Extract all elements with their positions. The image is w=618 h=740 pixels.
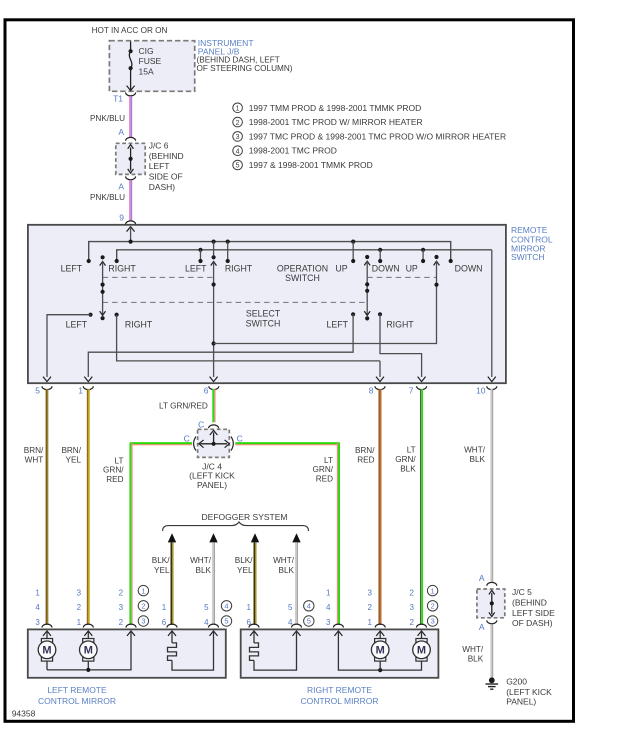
svg-text:BLK/: BLK/ [235, 556, 253, 565]
svg-text:6: 6 [204, 386, 209, 396]
svg-text:OPERATION: OPERATION [277, 264, 328, 274]
svg-text:OF STEERING COLUMN): OF STEERING COLUMN) [197, 64, 293, 73]
wire fuse to J/B exit [130, 68, 132, 89]
svg-text:5: 5 [307, 617, 311, 626]
switch pole (op sw sec3 / select sw sec2) [365, 255, 369, 259]
svg-text:6: 6 [247, 618, 252, 627]
svg-text:5: 5 [236, 163, 240, 170]
junction connector J/C 6 [116, 143, 145, 174]
svg-text:M: M [42, 645, 51, 657]
svg-text:1: 1 [368, 618, 373, 627]
svg-text:A: A [118, 127, 124, 137]
svg-text:LT: LT [115, 456, 124, 465]
instrument panel J/B box [109, 41, 194, 92]
svg-text:2: 2 [77, 603, 82, 612]
wire LT GRN/RED entry to motor commons [338, 631, 421, 670]
svg-text:1: 1 [326, 588, 331, 597]
svg-text:RED: RED [357, 456, 374, 465]
heater element (right mirror) [253, 631, 255, 643]
entry arrow [293, 631, 301, 636]
wire drop to RIGHT contact (op sw sec1) [115, 259, 119, 263]
fuse CIG FUSE 15A [130, 42, 132, 52]
svg-text:10: 10 [476, 386, 486, 396]
svg-text:3: 3 [141, 617, 145, 626]
svg-text:1: 1 [162, 603, 167, 612]
wire drop to LEFT contact (op sw sec1) [87, 259, 91, 263]
svg-text:BLK: BLK [400, 465, 416, 474]
svg-text:(BEHIND: (BEHIND [149, 151, 184, 161]
connector arc (left mirror entry) [167, 624, 177, 627]
wire LT GRN/BLK pin 7 to right mirror [420, 389, 422, 625]
svg-text:BRN/: BRN/ [24, 446, 44, 455]
svg-text:1998-2001 TMC PROD: 1998-2001 TMC PROD [249, 146, 337, 156]
svg-text:A: A [118, 182, 124, 192]
select sw sec1 LEFT contact to pin 5 [88, 313, 92, 317]
variant note 1 (right mirror) [427, 585, 437, 595]
mechanical linkage (select switch) [103, 301, 368, 303]
svg-text:LEFT REMOTE: LEFT REMOTE [47, 685, 107, 695]
wire drop to DOWN contact (op sw sec3) [379, 250, 381, 260]
junction connector J/C 4 [198, 429, 230, 457]
svg-text:C: C [184, 433, 190, 443]
svg-text:3: 3 [119, 603, 124, 612]
svg-text:CONTROL MIRROR: CONTROL MIRROR [38, 696, 116, 706]
wire BRN/RED pin 8 to right mirror [378, 389, 380, 625]
node pin 6 / pole D junction [212, 341, 216, 345]
connector arc (right mirror entry) [292, 624, 302, 627]
svg-text:BLK: BLK [468, 654, 484, 663]
svg-text:94358: 94358 [12, 708, 36, 718]
svg-text:J/C 6: J/C 6 [149, 141, 169, 151]
svg-text:3: 3 [410, 603, 415, 612]
ground G200 [489, 677, 495, 683]
right remote control mirror box [241, 629, 439, 677]
svg-text:PANEL): PANEL) [506, 697, 536, 707]
connector C arc at J/C 4 top [209, 425, 219, 428]
svg-text:1997 TMM PROD & 1998-2001 TMMK: 1997 TMM PROD & 1998-2001 TMMK PROD [249, 103, 422, 113]
select sw sec1 RIGHT contact wire [115, 313, 119, 317]
pin 6 [209, 386, 219, 389]
wire drop to UP contact (op sw sec3) [352, 242, 354, 260]
legend note 4 [233, 146, 243, 156]
svg-text:3: 3 [368, 588, 373, 597]
svg-text:4: 4 [224, 602, 228, 611]
svg-text:UP: UP [406, 264, 418, 274]
defogger feed arrow WHT/BLK [209, 533, 217, 542]
switch pole (op sw sec1 / select sw sec1) [101, 255, 105, 259]
wire WHT/BLK pin 10 to J/C 5 [490, 389, 492, 582]
connector arc (right mirror entry) [417, 624, 427, 627]
connector arc (left mirror entry) [126, 624, 136, 627]
svg-text:PANEL): PANEL) [197, 480, 227, 490]
brace defogger system [163, 522, 309, 531]
svg-text:RED: RED [106, 475, 123, 484]
svg-text:1: 1 [78, 386, 83, 396]
entry arrow [250, 631, 258, 636]
svg-text:(LEFT KICK: (LEFT KICK [506, 687, 552, 697]
wire BRN/YEL pin 1 to left mirror [87, 389, 89, 625]
node bus1 x213.6 [212, 240, 216, 244]
svg-text:HOT IN ACC OR ON: HOT IN ACC OR ON [92, 26, 168, 35]
svg-text:2: 2 [431, 602, 435, 611]
svg-text:M: M [376, 645, 385, 657]
svg-text:1998-2001 TMC PROD W/ MIRROR H: 1998-2001 TMC PROD W/ MIRROR HEATER [249, 117, 423, 127]
svg-text:CIG: CIG [139, 46, 154, 56]
svg-text:RIGHT REMOTE: RIGHT REMOTE [307, 685, 372, 695]
svg-text:T1: T1 [113, 93, 123, 103]
connector C paren left [194, 437, 196, 451]
entry arrow [168, 631, 176, 636]
wire LT GRN/RED left branch [130, 442, 192, 444]
svg-text:2: 2 [236, 120, 240, 127]
variant note 4 (right mirror) [304, 601, 314, 611]
legend note 5 [233, 160, 243, 170]
svg-text:1: 1 [236, 106, 240, 113]
svg-text:1: 1 [35, 588, 40, 597]
svg-text:FUSE: FUSE [139, 56, 162, 66]
wire to pin 8 exit [379, 361, 381, 377]
node bus2 x200.5 [198, 248, 202, 252]
pin A (J/C 6 bottom) [126, 176, 136, 179]
svg-text:5: 5 [224, 617, 228, 626]
svg-text:BLK/: BLK/ [152, 556, 170, 565]
connector pin 9 entry arc [126, 221, 136, 224]
svg-text:RIGHT: RIGHT [225, 264, 253, 274]
node bus2 x423.1 [421, 248, 425, 252]
svg-text:(BEHIND: (BEHIND [512, 598, 547, 608]
svg-text:C: C [198, 419, 204, 429]
wire entries to motors [46, 631, 48, 639]
svg-text:RIGHT: RIGHT [108, 264, 136, 274]
svg-text:2: 2 [119, 618, 124, 627]
entry arrow [418, 631, 426, 636]
variant note 3 (left mirror) [138, 616, 148, 626]
motor M3 (right mirror horizontal) [375, 639, 386, 643]
svg-text:2: 2 [368, 603, 373, 612]
pin 1 [83, 386, 93, 389]
svg-text:1997 TMC PROD & 1998-2001 TMC: 1997 TMC PROD & 1998-2001 TMC PROD W/O M… [249, 131, 506, 141]
svg-text:LEFT: LEFT [61, 264, 83, 274]
svg-text:3: 3 [431, 617, 435, 626]
pin 10 [487, 386, 497, 389]
wire bus 2 [117, 250, 492, 261]
svg-text:BRN/: BRN/ [355, 446, 375, 455]
svg-text:SIDE OF: SIDE OF [149, 172, 183, 182]
motor M2 (left mirror vertical) [83, 639, 94, 643]
variant note 2 (right mirror) [427, 601, 437, 611]
svg-text:CONTROL MIRROR: CONTROL MIRROR [300, 696, 378, 706]
svg-text:A: A [479, 622, 485, 632]
svg-text:PNK/BLU: PNK/BLU [90, 193, 125, 202]
connector T1 at J/B exit [126, 93, 136, 96]
mechanical linkage (operation switch left sections) [103, 276, 216, 278]
svg-text:WHT/: WHT/ [464, 446, 486, 455]
wire BLK/YEL defogger to mirror [253, 542, 255, 625]
node motor common junction [86, 668, 90, 672]
svg-text:RIGHT: RIGHT [386, 320, 414, 330]
svg-text:UP: UP [335, 264, 347, 274]
wire PNK/BLU (fuse to J/C 6) [129, 96, 131, 137]
wire drop to RIGHT contact (op sw sec2) [227, 242, 229, 260]
svg-text:3: 3 [77, 588, 82, 597]
svg-text:SWITCH: SWITCH [511, 252, 545, 262]
wire LT GRN/RED right branch [235, 442, 339, 444]
wire motor commons to LT GRN/RED entry [46, 661, 48, 670]
svg-text:7: 7 [409, 386, 414, 396]
svg-text:8: 8 [369, 386, 374, 396]
svg-text:J/C 5: J/C 5 [512, 587, 532, 597]
legend note 2 [233, 117, 243, 127]
svg-text:BLK: BLK [196, 566, 212, 575]
node motor common junction [378, 668, 382, 672]
svg-text:YEL: YEL [237, 566, 253, 575]
wire heater to WHT/BLK entry [172, 631, 214, 670]
svg-text:LEFT: LEFT [327, 320, 349, 330]
remote control mirror switch U1 [28, 225, 506, 383]
node bus1 x227.7 [226, 240, 230, 244]
svg-text:2: 2 [119, 588, 124, 597]
svg-text:1: 1 [77, 618, 82, 627]
svg-text:DOWN: DOWN [455, 264, 483, 274]
variant note 5 (right mirror) [304, 616, 314, 626]
svg-text:RIGHT: RIGHT [125, 320, 153, 330]
svg-text:LEFT: LEFT [185, 264, 207, 274]
mechanical linkage (operation switch right sections) [367, 276, 436, 278]
wire bus 2 drop to pin 10 exit [491, 250, 493, 377]
wire entries to motors [379, 631, 381, 639]
svg-text:BLK: BLK [279, 566, 295, 575]
connector arc (right mirror entry) [249, 624, 259, 627]
svg-text:5: 5 [288, 603, 293, 612]
svg-text:1: 1 [247, 603, 252, 612]
svg-text:SELECT: SELECT [246, 309, 281, 319]
motor M4 (right mirror vertical) [416, 639, 427, 643]
svg-text:A: A [479, 573, 485, 583]
svg-text:LEFT: LEFT [149, 161, 170, 171]
entry arrow [127, 631, 135, 636]
svg-text:C: C [237, 433, 243, 443]
svg-text:SWITCH: SWITCH [246, 319, 281, 329]
svg-text:2: 2 [141, 602, 145, 611]
svg-text:1: 1 [141, 586, 145, 595]
svg-text:4: 4 [307, 602, 311, 611]
svg-text:BRN/: BRN/ [61, 446, 81, 455]
connector arc (left mirror entry) [42, 624, 52, 627]
connector arc (left mirror entry) [83, 624, 93, 627]
svg-text:GRN/: GRN/ [103, 466, 124, 475]
entry arrow [334, 631, 342, 636]
connector C paren right [231, 437, 233, 451]
svg-text:1997 & 1998-2001 TMMK PROD: 1997 & 1998-2001 TMMK PROD [249, 160, 373, 170]
svg-text:2: 2 [410, 618, 415, 627]
connector arc (right mirror entry) [333, 624, 343, 627]
svg-text:SWITCH: SWITCH [285, 273, 320, 283]
entry arrow [376, 631, 384, 636]
svg-text:2: 2 [410, 588, 415, 597]
svg-text:M: M [417, 645, 426, 657]
connector arc (right mirror entry) [375, 624, 385, 627]
svg-text:9: 9 [119, 213, 124, 223]
svg-text:RED: RED [316, 474, 333, 483]
svg-text:WHT/: WHT/ [462, 645, 484, 654]
svg-text:4: 4 [326, 603, 331, 612]
svg-text:WHT/: WHT/ [273, 556, 295, 565]
legend note 1 [233, 103, 243, 113]
variant note 2 (left mirror) [138, 601, 148, 611]
pin 5 [42, 386, 52, 389]
wire BLK/YEL defogger to mirror [170, 542, 172, 625]
svg-text:LT: LT [407, 446, 416, 455]
svg-text:DOWN: DOWN [372, 264, 400, 274]
svg-text:BLK: BLK [470, 455, 486, 464]
svg-text:WHT: WHT [25, 456, 44, 465]
svg-text:PNK/BLU: PNK/BLU [90, 114, 125, 123]
variant note 1 (left mirror) [138, 585, 148, 595]
legend note 3 [233, 132, 243, 142]
svg-text:G200: G200 [506, 676, 527, 686]
entry arrow [43, 631, 51, 636]
wire pin 9 entry to power bus [127, 227, 135, 232]
svg-text:3: 3 [326, 618, 331, 627]
wire WHT/BLK defogger to mirror [212, 542, 214, 624]
wire WHT/BLK J/C 5 to ground [490, 625, 492, 679]
wire BRN/WHT pin 5 to left mirror [46, 389, 48, 625]
svg-text:5: 5 [35, 386, 40, 396]
svg-text:M: M [84, 645, 93, 657]
svg-text:GRN/: GRN/ [395, 455, 416, 464]
svg-text:DASH): DASH) [149, 182, 176, 192]
node DOWN contact (op sw sec4) [449, 259, 453, 263]
svg-text:4: 4 [35, 603, 40, 612]
variant note 5 (left mirror) [221, 616, 231, 626]
svg-text:GRN/: GRN/ [313, 465, 334, 474]
svg-text:4: 4 [236, 148, 240, 155]
svg-text:5: 5 [204, 603, 209, 612]
svg-text:YEL: YEL [66, 456, 82, 465]
node bus1 entry junction [129, 240, 133, 244]
wire WHT/BLK defogger to mirror [295, 542, 297, 624]
connector arc (left mirror entry) [209, 624, 219, 627]
wire LT GRN/RED pin 6 to J/C 4 [212, 389, 214, 422]
junction connector J/C 5 [477, 589, 505, 618]
pin 7 [417, 386, 427, 389]
svg-text:LT: LT [324, 456, 333, 465]
pin 8 [375, 386, 385, 389]
switch pole (op sw sec4) [434, 255, 438, 259]
switch pole (op sw sec2) feeds pin 6 [213, 242, 215, 256]
wire drop to LEFT contact (op sw sec2) [200, 250, 202, 260]
entry arrow [210, 631, 218, 636]
svg-text:LT GRN/RED: LT GRN/RED [159, 402, 208, 411]
wire heater to WHT/BLK entry [254, 631, 297, 670]
pin A (J/C 5 bottom) [487, 620, 497, 623]
variant note 3 (right mirror) [427, 616, 437, 626]
wire drop to UP contact (op sw sec4) [422, 250, 424, 260]
entry arrow [84, 631, 92, 636]
wire power bus (bus 1) [89, 242, 451, 261]
svg-text:1: 1 [431, 586, 435, 595]
svg-text:LEFT: LEFT [66, 320, 88, 330]
node bus2 x380.2 [378, 248, 382, 252]
left remote control mirror box [28, 629, 226, 677]
svg-text:15A: 15A [139, 66, 154, 76]
wire PNK/BLU (J/C 6 to switch pin 9) [129, 180, 131, 221]
select sw sec2 RIGHT contact to pin 7 [378, 312, 382, 316]
motor M1 (left mirror horizontal) [41, 639, 52, 643]
svg-text:4: 4 [204, 618, 209, 627]
defogger feed arrow BLK/YEL [251, 533, 259, 542]
node bus1 x353.2 [351, 240, 355, 244]
defogger feed arrow WHT/BLK [292, 533, 300, 542]
svg-text:6: 6 [162, 618, 167, 627]
svg-text:DEFOGGER SYSTEM: DEFOGGER SYSTEM [202, 512, 288, 522]
heater element (left mirror) [171, 631, 173, 643]
svg-text:YEL: YEL [154, 566, 170, 575]
select sw sec2 LEFT contact to pin 1 [351, 312, 355, 316]
defogger feed arrow BLK/YEL [168, 533, 176, 542]
svg-text:3: 3 [236, 134, 240, 141]
svg-text:LEFT SIDE: LEFT SIDE [512, 608, 555, 618]
svg-text:OF DASH): OF DASH) [512, 618, 553, 628]
svg-text:WHT/: WHT/ [190, 556, 212, 565]
variant note 4 (left mirror) [221, 601, 231, 611]
svg-text:3: 3 [35, 618, 40, 627]
